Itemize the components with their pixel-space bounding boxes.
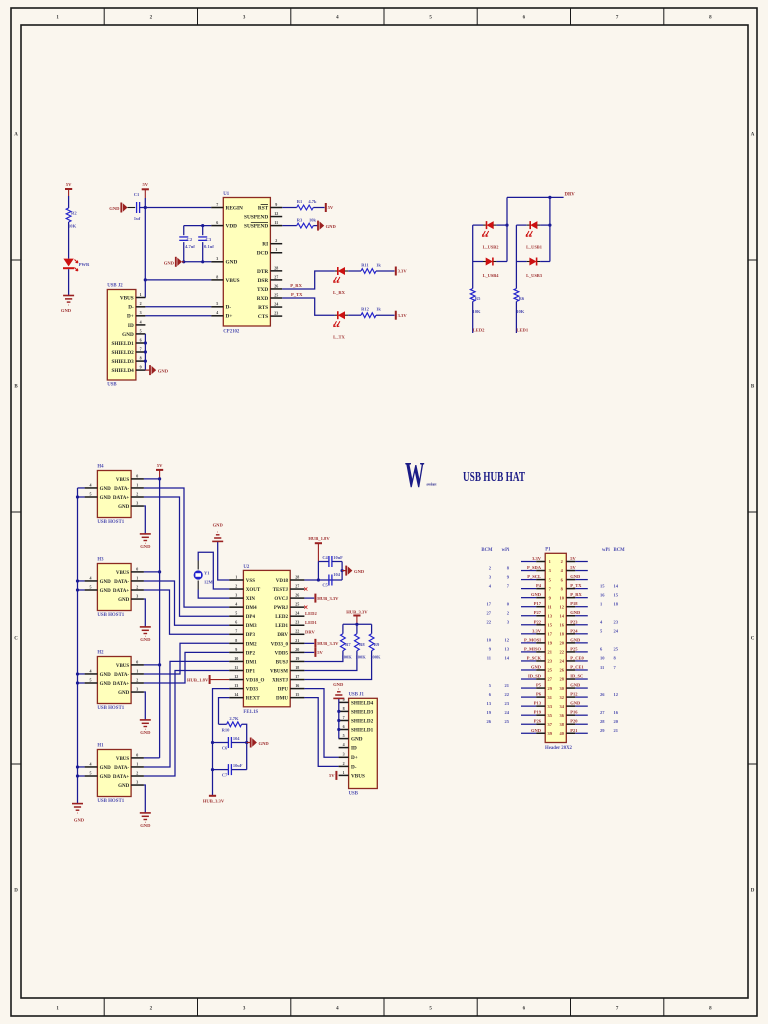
svg-text:28: 28	[295, 574, 299, 579]
pin 6 U1 VDD	[211, 220, 237, 230]
wire H1 pin4 to GND rail	[78, 766, 85, 768]
svg-text:18: 18	[295, 665, 299, 670]
svg-text:GND: GND	[100, 496, 112, 501]
svg-text:RTS: RTS	[258, 305, 268, 311]
svg-text:1: 1	[275, 247, 277, 252]
pin 2 H3 DATA+	[113, 584, 144, 594]
pin 1 USB J2 VBUS	[120, 292, 146, 302]
svg-text:REGIN: REGIN	[226, 205, 244, 211]
svg-text:VBUS: VBUS	[116, 664, 130, 669]
pin 1 USB J1 VBUS	[339, 770, 365, 780]
pin 6 U2 DM3	[229, 620, 257, 630]
svg-text:RST: RST	[258, 205, 269, 211]
pin 14 P1 GND	[560, 610, 588, 618]
resistor R2 10K	[66, 208, 77, 229]
svg-text:R1: R1	[297, 199, 303, 204]
wire H4 pin5 to GND rail	[78, 496, 85, 498]
logo W aveshare	[405, 455, 437, 495]
svg-text:GND: GND	[122, 332, 134, 338]
svg-text:D+: D+	[351, 755, 358, 761]
svg-text:DPU: DPU	[278, 688, 289, 693]
svg-text:1: 1	[549, 559, 551, 564]
svg-text:22: 22	[505, 692, 510, 697]
svg-text:P_CE1: P_CE1	[570, 664, 584, 669]
svg-text:22: 22	[560, 650, 564, 655]
pin 2 U2 XOUT	[229, 583, 261, 593]
wire net DP4	[144, 497, 229, 616]
svg-text:4: 4	[90, 761, 92, 766]
svg-text:GND: GND	[100, 673, 112, 678]
pin 8 U2 DM2	[229, 638, 257, 648]
wire H4 GND pin to earth	[144, 506, 145, 534]
wire R10 to C6/C7 right rail	[242, 724, 247, 769]
pin 6 USB J1 SHIELD1	[339, 724, 374, 734]
svg-text:7: 7	[235, 629, 237, 634]
connector H4 USB HOST1	[97, 465, 131, 525]
svg-text:P21: P21	[570, 728, 578, 733]
wire R3 to GND	[313, 225, 318, 227]
pin 9 USB J1 SHIELD4	[339, 697, 374, 707]
svg-text:P_SDA: P_SDA	[527, 565, 542, 570]
svg-text:REXT: REXT	[246, 697, 261, 702]
svg-text:P16: P16	[570, 710, 578, 715]
svg-text:4: 4	[90, 668, 92, 673]
node VDD/C3	[201, 224, 204, 227]
pin 27 P1 ID_SD	[521, 674, 553, 682]
svg-text:VSS: VSS	[246, 579, 255, 584]
svg-text:CTS: CTS	[258, 314, 268, 320]
svg-text:P24: P24	[570, 628, 578, 633]
svg-text:28: 28	[600, 719, 605, 724]
svg-text:P_SCK: P_SCK	[527, 655, 542, 660]
svg-text:GND: GND	[354, 569, 365, 574]
svg-text:USB HOST1: USB HOST1	[97, 613, 124, 618]
svg-text:0: 0	[136, 659, 138, 664]
pin 7 U1 REGIN	[211, 202, 243, 212]
svg-text:GND: GND	[100, 766, 112, 771]
wire left pair left rail	[472, 225, 474, 288]
resistor R10 2.7K	[219, 716, 242, 732]
svg-text:VD18: VD18	[276, 579, 289, 584]
svg-text:24: 24	[614, 629, 619, 634]
svg-text:R11: R11	[361, 263, 369, 268]
pin 7 P1 P4	[489, 583, 552, 591]
svg-text:3: 3	[136, 686, 138, 691]
svg-text:HUB_3.3V: HUB_3.3V	[317, 596, 339, 601]
svg-text:5V: 5V	[317, 650, 323, 655]
svg-text:R5: R5	[475, 296, 481, 301]
pin 28 U1 DTR	[257, 265, 282, 275]
svg-text:VBUS: VBUS	[226, 278, 240, 284]
svg-text:19: 19	[487, 710, 492, 715]
svg-text:VDD: VDD	[226, 224, 238, 230]
svg-text:U2: U2	[243, 565, 249, 570]
svg-text:PWR: PWR	[79, 262, 90, 267]
svg-text:3.3V: 3.3V	[532, 556, 542, 561]
svg-text:21: 21	[505, 683, 510, 688]
pin 3 P1 P_SDA	[489, 565, 552, 573]
svg-text:26: 26	[600, 692, 605, 697]
svg-text:DP1: DP1	[246, 669, 256, 674]
pin 16 P1 P23	[560, 619, 619, 627]
power port 5V (USB HOST rail)	[156, 463, 163, 479]
pin 4 U2 DM4	[229, 602, 257, 612]
svg-text:20: 20	[295, 647, 299, 652]
svg-text:VBUS: VBUS	[116, 757, 130, 762]
svg-text:0: 0	[136, 566, 138, 571]
wire C1 to U1 REGIN	[140, 207, 212, 209]
svg-text:DM2: DM2	[246, 642, 257, 647]
node GND rail junction	[76, 588, 79, 591]
svg-text:DM1: DM1	[246, 660, 257, 665]
svg-text:GND: GND	[118, 598, 130, 603]
svg-text:GND: GND	[74, 818, 85, 823]
wire net P_TX (U1 RXD)	[282, 298, 335, 315]
pin 12 P1 P18	[560, 601, 619, 609]
node DRV/right pair	[548, 196, 551, 199]
pin 11 P1 P17	[487, 601, 552, 609]
connector H1 USB HOST1	[97, 744, 131, 804]
pin 1 H3 DATA-	[114, 575, 144, 585]
svg-text:16: 16	[295, 683, 299, 688]
svg-text:HUB_3.3V: HUB_3.3V	[346, 610, 368, 615]
svg-text:LED2: LED2	[305, 611, 317, 616]
svg-text:DATA-: DATA-	[114, 673, 129, 678]
capacitor C4 10uF	[318, 555, 343, 567]
svg-text:2: 2	[140, 301, 142, 306]
pin 21 U2 VD33_0	[271, 638, 305, 648]
svg-text:10uF: 10uF	[333, 555, 343, 560]
wire C3 bottom lead	[202, 242, 204, 262]
pin 4 H3 GND	[85, 575, 112, 585]
power port 3.3V (R12)	[395, 311, 397, 320]
pin 5 USB J1 GND	[339, 733, 363, 743]
svg-text:GND: GND	[570, 574, 581, 579]
wire H4 pin4 to GND rail	[78, 487, 85, 489]
pin 21 P1 P_MISO	[489, 646, 552, 654]
svg-text:GND: GND	[140, 823, 151, 828]
svg-text:SHIELD4: SHIELD4	[111, 368, 134, 374]
node SHIELD2	[144, 350, 147, 353]
svg-text:3: 3	[216, 256, 218, 261]
ground (H2)	[140, 719, 151, 721]
pin 5 H4 GND	[85, 491, 112, 501]
connector USB J1	[349, 692, 378, 796]
svg-text:3: 3	[140, 310, 142, 315]
svg-text:P6: P6	[536, 692, 542, 697]
pin 6 P1 GND	[561, 574, 588, 582]
capacitor C7 10uF	[213, 763, 247, 778]
pin 4 H4 GND	[85, 482, 112, 492]
svg-text:1: 1	[136, 575, 138, 580]
svg-text:20: 20	[614, 719, 619, 724]
svg-text:2: 2	[561, 559, 563, 564]
svg-text:ID: ID	[351, 746, 357, 752]
svg-text:GND: GND	[333, 682, 344, 687]
svg-text:L_USB3: L_USB3	[526, 273, 543, 278]
wire H3 VBUS to 5V rail	[144, 571, 160, 573]
svg-text:6: 6	[140, 337, 142, 342]
ground (H1)	[140, 812, 151, 814]
svg-text:24: 24	[274, 301, 278, 306]
pin 11 U1 SUSPEND	[244, 220, 282, 230]
pin 4 H1 GND	[85, 761, 112, 771]
power ground GND (C4/C5)	[342, 566, 365, 576]
svg-text:P19: P19	[534, 710, 542, 715]
pin 20 U2 VDD5	[275, 647, 305, 657]
svg-text:P_MISO: P_MISO	[524, 646, 542, 651]
svg-text:5: 5	[90, 584, 92, 589]
svg-text:GND: GND	[118, 784, 130, 789]
svg-text:P_RX: P_RX	[290, 283, 302, 288]
svg-text:5: 5	[235, 611, 237, 616]
ground (H4)	[140, 533, 151, 535]
svg-text:23: 23	[274, 311, 278, 316]
svg-text:GND: GND	[326, 224, 337, 229]
svg-text:9: 9	[235, 647, 237, 652]
svg-text:OVCJ: OVCJ	[274, 597, 288, 602]
node GND rail junction	[76, 495, 79, 498]
node H3 VBUS	[158, 570, 161, 573]
wire net DM4	[144, 488, 229, 607]
svg-text:R8: R8	[359, 642, 365, 647]
pin 9 P1 GND	[521, 592, 552, 600]
pin 1 H4 DATA-	[114, 482, 144, 492]
svg-text:HUB_3.3V: HUB_3.3V	[203, 798, 225, 803]
pin 2 USB J1 D-	[339, 761, 357, 771]
LED L_USB2	[473, 221, 507, 250]
wire H3 pin4 to GND rail	[78, 580, 85, 582]
svg-text:XIN: XIN	[246, 597, 256, 602]
svg-text:GND: GND	[570, 610, 581, 615]
svg-text:15: 15	[295, 692, 299, 697]
svg-text:W: W	[405, 455, 425, 495]
crystal Y1 12M	[194, 561, 214, 590]
svg-text:15: 15	[600, 583, 605, 588]
svg-text:GND: GND	[100, 487, 112, 492]
svg-text:24: 24	[295, 611, 299, 616]
svg-text:HUB_1.8V: HUB_1.8V	[308, 536, 330, 541]
pin 7 USB J2 SHIELD2	[111, 346, 145, 356]
pin 9 USB J2 SHIELD4	[111, 365, 145, 375]
wire USB J2 shield rail	[144, 334, 146, 370]
svg-text:10K: 10K	[473, 309, 482, 314]
svg-text:TXD: TXD	[257, 287, 268, 293]
resistor R6 10K	[514, 289, 525, 315]
svg-text:10K: 10K	[68, 224, 77, 229]
svg-text:P26: P26	[534, 719, 542, 724]
svg-text:11: 11	[600, 665, 605, 670]
node GND/C3	[201, 260, 204, 263]
svg-text:XRSTJ: XRSTJ	[272, 678, 288, 683]
power ground GND (USB J2 shield)	[145, 365, 168, 375]
svg-text:GND: GND	[100, 580, 112, 585]
svg-text:C4: C4	[322, 555, 328, 560]
svg-text:104: 104	[233, 736, 240, 741]
pin 23 P1 P_SCK	[487, 655, 553, 663]
pin 5 U2 DP4	[229, 611, 255, 621]
svg-text:13: 13	[234, 683, 238, 688]
pin 5 U1 D-	[211, 301, 231, 311]
pin 1 U2 VSS	[229, 574, 255, 584]
svg-text:16: 16	[600, 592, 605, 597]
pin 10 U2 DM1	[229, 656, 257, 666]
svg-text:2: 2	[136, 584, 138, 589]
wire VD33 to HUB_3.3V rail	[213, 689, 230, 796]
svg-text:H2: H2	[97, 651, 104, 656]
pin 33 P1 P13	[487, 701, 553, 709]
svg-text:26: 26	[487, 719, 492, 724]
svg-text:R9: R9	[374, 642, 380, 647]
svg-text:12: 12	[560, 604, 564, 609]
svg-text:L_USB2: L_USB2	[483, 245, 499, 250]
pin 2 H4 DATA+	[113, 491, 144, 501]
node J1 SHIELD1	[337, 728, 340, 731]
svg-text:2: 2	[136, 770, 138, 775]
pin 5 H2 GND	[85, 677, 112, 687]
power port HUB_3.3V (pullups)	[346, 610, 368, 625]
svg-text:4: 4	[90, 482, 92, 487]
svg-text:TESTJ: TESTJ	[273, 588, 289, 593]
capacitor C2 4.7uf	[179, 237, 195, 249]
node C4 left	[317, 578, 320, 581]
svg-text:GND: GND	[100, 682, 112, 687]
pin 0 H3 VBUS	[116, 566, 144, 576]
wire shield rail to earth	[338, 699, 340, 703]
svg-text:RI: RI	[262, 242, 268, 248]
wire net DM3	[144, 581, 229, 625]
pin 8 USB J2 SHIELD3	[111, 356, 145, 366]
pin 31 P1 P6	[489, 692, 552, 700]
pin 1 U1 DCD	[257, 247, 282, 257]
node left pair top	[505, 224, 508, 227]
svg-text:2: 2	[275, 238, 277, 243]
svg-text:FE1.1S: FE1.1S	[243, 710, 258, 715]
svg-text:10K: 10K	[516, 309, 525, 314]
svg-text:DMU: DMU	[276, 697, 288, 702]
svg-text:4: 4	[216, 310, 218, 315]
svg-text:USB J2: USB J2	[107, 284, 123, 289]
svg-text:11: 11	[487, 656, 492, 661]
wire LED to R11	[348, 270, 361, 272]
svg-text:D+: D+	[226, 314, 233, 320]
svg-text:Y1: Y1	[204, 571, 210, 576]
svg-text:1k: 1k	[376, 307, 381, 312]
svg-text:BCM: BCM	[614, 548, 626, 553]
svg-text:104: 104	[333, 572, 340, 577]
power port 3.3V (R11)	[395, 267, 397, 276]
svg-text:U1: U1	[223, 192, 229, 197]
wire VDD5 to 5V	[304, 651, 314, 653]
svg-text:VDD5: VDD5	[275, 651, 289, 656]
svg-text:C3: C3	[206, 237, 212, 242]
wire VD33_0 to HUB_3.3V	[304, 642, 314, 644]
wire REXT to R10	[219, 698, 230, 725]
svg-text:13: 13	[487, 701, 492, 706]
connector USB J2	[107, 284, 136, 388]
svg-text:P17: P17	[534, 601, 542, 606]
svg-text:DM4: DM4	[246, 606, 257, 611]
svg-text:DATA-: DATA-	[114, 487, 129, 492]
pin 1 H2 DATA-	[114, 668, 144, 678]
svg-text:12: 12	[274, 211, 278, 216]
svg-text:23: 23	[295, 620, 299, 625]
node C7 left	[211, 768, 214, 771]
svg-text:2: 2	[343, 761, 345, 766]
resistor R7 100K	[341, 624, 353, 659]
wire VD18 to C4/C5 cluster	[304, 579, 342, 581]
svg-text:C6: C6	[222, 746, 228, 751]
svg-text:2: 2	[136, 491, 138, 496]
svg-text:P20: P20	[570, 719, 578, 724]
svg-text:14: 14	[505, 656, 510, 661]
svg-text:VBUS: VBUS	[116, 571, 130, 576]
pin 24 P1 P_CE0	[560, 655, 617, 663]
svg-text:VBUSM: VBUSM	[270, 669, 288, 674]
pin 23 U2 LED1	[275, 620, 304, 630]
svg-text:5: 5	[140, 328, 142, 333]
svg-text:DRV: DRV	[565, 193, 576, 198]
pin 4 USB J2 ID	[128, 319, 145, 329]
svg-text:R3: R3	[297, 217, 303, 222]
pin 0 H2 VBUS	[116, 659, 144, 669]
svg-text:11: 11	[274, 220, 278, 225]
svg-text:32: 32	[560, 695, 564, 700]
svg-text:4: 4	[140, 319, 142, 324]
pin 8 P1 P_TX	[561, 583, 619, 591]
svg-text:LED1: LED1	[275, 624, 288, 629]
svg-text:1uf: 1uf	[134, 216, 141, 221]
wire left pair right rail	[506, 197, 508, 261]
node GND/C2	[182, 260, 185, 263]
svg-text:11: 11	[548, 604, 552, 609]
svg-text:14: 14	[614, 583, 619, 588]
svg-text:1: 1	[140, 292, 142, 297]
wire net DP3	[144, 590, 229, 634]
pin 24 U2 LED2	[275, 611, 304, 621]
wire LED PWR to ground	[68, 269, 70, 295]
pin 5 H1 GND	[85, 770, 112, 780]
svg-text:P13: P13	[534, 701, 542, 706]
svg-text:R2: R2	[71, 211, 77, 216]
svg-text:LED1: LED1	[305, 620, 317, 625]
pin 14 U2 REXT	[229, 692, 260, 702]
wire C4 rail left	[317, 562, 319, 581]
LED L_USB3	[516, 258, 550, 278]
svg-text:5: 5	[90, 770, 92, 775]
svg-text:VBUS: VBUS	[116, 478, 130, 483]
svg-text:GND: GND	[226, 260, 238, 266]
power port HUB_3.3V (VD33_0)	[314, 639, 316, 648]
power port 5V (power indicator)	[65, 182, 72, 196]
svg-text:14: 14	[234, 692, 238, 697]
svg-text:29: 29	[600, 728, 605, 733]
svg-text:DTR: DTR	[257, 269, 268, 275]
pin 27 U1 DSR	[258, 274, 283, 284]
wire R7 to BUSJ	[304, 651, 343, 662]
svg-text:DP3: DP3	[246, 633, 256, 638]
svg-text:GND: GND	[570, 701, 581, 706]
svg-text:SHIELD2: SHIELD2	[351, 718, 374, 724]
svg-text:GND: GND	[140, 730, 151, 735]
svg-text:10uF: 10uF	[233, 763, 243, 768]
svg-text:0: 0	[136, 473, 138, 478]
svg-text:13: 13	[505, 647, 510, 652]
svg-text:GND: GND	[140, 637, 151, 642]
svg-text:HUB_3.3V: HUB_3.3V	[317, 641, 339, 646]
ground (GND rail bottom)	[72, 804, 85, 823]
pin 36 P1 P16	[560, 710, 619, 718]
